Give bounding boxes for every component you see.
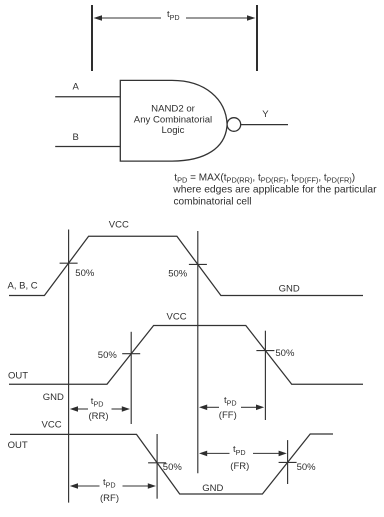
dimension bar right (tPD measurement) — [256, 5, 258, 71]
svg-text:GND: GND — [202, 483, 223, 494]
svg-text:where edges are applicable for: where edges are applicable for the parti… — [172, 185, 377, 196]
wire input B — [55, 146, 120, 148]
svg-text:NAND2 or: NAND2 or — [151, 104, 196, 115]
NAND gate U1 body — [120, 80, 227, 161]
50% tick on falling edge of inverting OUT — [148, 462, 166, 464]
reference line 1 (input 50% rise) — [68, 230, 70, 503]
50% tick on falling edge of A,B,C — [189, 263, 207, 265]
svg-text:VCC: VCC — [42, 420, 62, 431]
svg-text:OUT: OUT — [8, 440, 28, 451]
NAND gate U1 text — [134, 104, 212, 137]
svg-text:combinatorial cell: combinatorial cell — [174, 197, 252, 208]
svg-text:50%: 50% — [168, 269, 188, 280]
svg-text:Logic: Logic — [162, 125, 185, 136]
svg-text:GND: GND — [279, 283, 300, 294]
dimension bar left (tPD measurement) — [91, 5, 93, 71]
svg-text:VCC: VCC — [109, 220, 129, 231]
50% tick on rising edge of A,B,C — [60, 262, 78, 264]
tPD(FR) dimension arrow — [199, 451, 287, 457]
waveform OUT (inverting) trace — [10, 434, 333, 494]
tPD dimension arrow left — [94, 15, 162, 21]
svg-text:(FF): (FF) — [219, 410, 237, 421]
svg-text:50%: 50% — [297, 462, 317, 473]
wire output Y — [241, 124, 288, 126]
50% tick on falling edge of OUT — [256, 350, 274, 352]
note: tPD formula text — [172, 172, 377, 207]
waveform A,B,C trace — [9, 236, 363, 295]
wire input A — [55, 96, 120, 98]
svg-text:Any Combinatorial: Any Combinatorial — [134, 114, 212, 125]
svg-text:50%: 50% — [75, 268, 95, 279]
reference line 4 (OUT 50% fall) — [264, 331, 266, 420]
svg-text:A: A — [73, 82, 80, 93]
svg-text:50%: 50% — [275, 348, 295, 359]
svg-text:(FR): (FR) — [230, 461, 249, 472]
reference line 3 (OUT 50% rise) — [130, 332, 132, 424]
NAND gate U1 inversion bubble — [227, 118, 241, 132]
tPD(RR) dimension arrow — [70, 406, 130, 412]
svg-text:Y: Y — [262, 109, 269, 120]
svg-text:50%: 50% — [98, 350, 118, 361]
50% tick on rising edge of OUT — [122, 353, 140, 355]
svg-text:(RF): (RF) — [100, 493, 119, 504]
reference line 6 (inverting OUT 50% rise) — [287, 440, 289, 484]
tPD(RF) dimension arrow — [70, 483, 156, 489]
svg-text:OUT: OUT — [8, 371, 28, 382]
svg-text:GND: GND — [43, 392, 64, 403]
tPD(FF) dimension arrow — [199, 405, 264, 411]
svg-text:A, B, C: A, B, C — [8, 280, 38, 291]
reference line 5 (inverting OUT 50% fall) — [156, 434, 158, 499]
svg-text:B: B — [73, 132, 79, 143]
reference line 2 (input 50% fall) — [197, 231, 199, 473]
svg-text:50%: 50% — [163, 462, 183, 473]
50% tick on rising edge of inverting OUT — [279, 461, 297, 463]
waveform OUT (non-inverting) trace — [9, 326, 363, 385]
svg-text:VCC: VCC — [167, 311, 187, 322]
tPD dimension arrow right — [186, 15, 256, 21]
svg-text:(RR): (RR) — [89, 411, 109, 422]
